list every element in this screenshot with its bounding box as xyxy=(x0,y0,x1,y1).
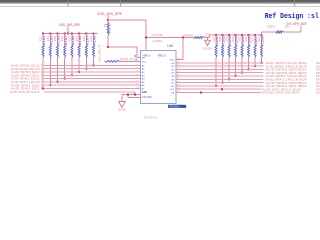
wire resistor R162 bottom lead to bus xyxy=(49,58,51,86)
wire stub below VDD_AVS_SPK xyxy=(107,15,109,20)
wire into resistor R171 xyxy=(104,60,106,62)
svg-text:CLK: CLK xyxy=(170,89,175,91)
junction R188 to bus line xyxy=(261,62,263,64)
junction R168 to bus line xyxy=(93,64,95,66)
wire bus line right 3 xyxy=(176,68,264,70)
wire resistor R185 top lead xyxy=(241,35,243,46)
wire left bank power rail xyxy=(43,33,98,35)
junction CAP_PAD to GND wire xyxy=(127,94,129,96)
svg-text:R168: R168 xyxy=(93,35,97,46)
wire bus line right 10 xyxy=(176,92,262,94)
resistor R184 xyxy=(235,46,237,58)
wire FB107 to label riser xyxy=(284,31,302,33)
wire stub to power arrow 3V3_SPK xyxy=(207,38,209,41)
wire resistor R183 bottom lead to bus xyxy=(228,58,230,80)
svg-text:FB106: FB106 xyxy=(184,33,194,37)
wire jog horizontal to IC pin 1 xyxy=(108,46,137,48)
junction R181 to bus line xyxy=(215,85,217,87)
wire resistor R164 bottom lead to bus xyxy=(64,58,66,79)
wire bus line left 1 xyxy=(44,64,140,66)
junction right rail col 7 xyxy=(254,34,256,36)
svg-text:TC106: TC106 xyxy=(152,33,163,37)
junction right rail col 1 xyxy=(215,34,217,36)
resistor R185 xyxy=(241,46,243,58)
svg-text:VREF_B: VREF_B xyxy=(158,55,166,58)
resistor R171 xyxy=(106,60,120,62)
wire bus line left 7 xyxy=(44,84,140,86)
svg-text:330: 330 xyxy=(212,36,216,42)
svg-text:CAP_PAD: CAP_PAD xyxy=(142,96,152,99)
wire resistor R184 bottom lead to bus xyxy=(235,58,237,77)
wire top horizontal to VREF riser xyxy=(108,19,146,21)
junction R164 to bus line xyxy=(64,78,66,80)
junction R170 bottom node xyxy=(107,46,109,48)
wire resistor R165 bottom lead to bus xyxy=(71,58,73,76)
svg-text:DGND: DGND xyxy=(118,108,126,112)
junction R182 to bus line xyxy=(222,82,224,84)
resistor R168 xyxy=(93,46,95,58)
wire bus line right 1 xyxy=(176,62,264,64)
svg-text:SDZ: SDZ xyxy=(142,61,147,63)
wire resistor R162 top lead xyxy=(49,34,51,46)
junction left rail col 4 xyxy=(64,33,66,35)
resistor R170 top lead xyxy=(107,20,109,23)
svg-text:330: 330 xyxy=(82,35,86,41)
wire bus line right 6 xyxy=(176,78,264,80)
wire bus line left 2 xyxy=(44,68,140,70)
wire VREF_B riser down xyxy=(182,38,184,60)
svg-text:330: 330 xyxy=(89,35,93,41)
svg-text:R163: R163 xyxy=(57,35,61,46)
junction bus right 10 xyxy=(200,92,202,94)
wire MCLK line drop to GND net xyxy=(134,92,136,95)
wire resistor R186 bottom lead to bus xyxy=(248,58,250,70)
resistor R163 xyxy=(57,46,59,58)
wire resistor R168 top lead xyxy=(93,34,95,46)
wire stub from VDD_AVS_SPK label to left rail xyxy=(67,27,69,34)
wire bus line right 8 xyxy=(176,85,264,87)
resistor R162 xyxy=(49,46,51,58)
toolbar separator 2 xyxy=(119,1,122,6)
svg-text:DGND SPK I2S BUF: DGND SPK I2S BUF xyxy=(262,91,300,95)
wire resistor R167 bottom lead to bus xyxy=(85,58,87,69)
ferrite bead FB107 xyxy=(276,31,284,33)
wire resistor R182 bottom lead to bus xyxy=(222,58,224,83)
wire VREF rail horizontal xyxy=(146,37,194,39)
wire resistor R165 top lead xyxy=(71,34,73,46)
wire bus line right 4 xyxy=(176,72,264,74)
wire bus line left 9 (MCLK) xyxy=(44,91,135,93)
wire jog vertical to IC pin 1 xyxy=(136,47,138,58)
resistor R187 xyxy=(254,46,256,58)
resistor R166 xyxy=(78,46,80,58)
svg-text:3V3SPK: 3V3SPK xyxy=(203,47,212,50)
wire R171 to IC pin 2 xyxy=(120,60,141,62)
junction left rail col 5 xyxy=(71,33,73,35)
svg-text:1.00M: 1.00M xyxy=(152,39,162,43)
wire resistor R167 top lead xyxy=(85,34,87,46)
svg-text:R165: R165 xyxy=(71,35,75,46)
junction R167 to bus line xyxy=(85,68,87,70)
junction left rail col 2 xyxy=(49,33,51,35)
svg-text:SPK AMP U16: SPK AMP U16 xyxy=(144,116,158,120)
svg-text:SPK: SPK xyxy=(316,91,320,95)
junction right rail col 8 xyxy=(261,34,263,36)
op IC U16 body xyxy=(140,51,176,104)
junction right rail col 3 xyxy=(228,34,230,36)
svg-text:330: 330 xyxy=(67,35,71,41)
wire resistor R187 bottom lead to bus xyxy=(254,58,256,67)
junction on left rail at label stub xyxy=(67,33,69,35)
svg-text:U16: U16 xyxy=(167,44,173,48)
wire resistor R161 top lead xyxy=(42,34,44,46)
resistor R165 xyxy=(71,46,73,58)
wire GND pin xyxy=(122,94,140,96)
wire resistor R187 top lead xyxy=(254,35,256,46)
wire FB106 output xyxy=(205,37,210,39)
junction R186 to bus line xyxy=(248,68,250,70)
toolbar bar top xyxy=(0,0,320,2)
svg-text:330: 330 xyxy=(231,36,235,42)
svg-text:330: 330 xyxy=(39,35,43,41)
svg-text:330: 330 xyxy=(75,35,79,41)
junction VREF_A xyxy=(145,37,147,39)
junction MCLK drop xyxy=(134,94,136,96)
selected part number highlight xyxy=(168,105,186,108)
resistor R188 xyxy=(261,46,263,58)
svg-text:3V3_SPK_BUF: 3V3_SPK_BUF xyxy=(286,22,307,26)
svg-text:330: 330 xyxy=(218,36,222,42)
wire resistor R163 top lead xyxy=(57,34,59,46)
resistor R181 xyxy=(215,46,217,58)
wire top right horizontal xyxy=(262,31,277,33)
wire VREF_A riser xyxy=(145,20,147,51)
svg-text:R167: R167 xyxy=(85,35,89,46)
wire VREF_B into IC right xyxy=(176,59,183,61)
svg-text:R164: R164 xyxy=(64,35,68,46)
svg-text:R161: R161 xyxy=(42,35,46,46)
resistor R183 xyxy=(228,46,230,58)
junction R184 to bus line xyxy=(235,75,237,77)
junction R165 to bus line xyxy=(71,74,73,76)
wire riser from 3V3_SPK_BUF branch xyxy=(261,32,263,35)
junction VREF_B tap xyxy=(182,37,184,39)
ground symbol DGND xyxy=(119,102,126,108)
wire resistor R183 top lead xyxy=(228,35,230,46)
svg-text:R188: R188 xyxy=(261,35,265,46)
junction R185 to bus line xyxy=(241,72,243,74)
wire down to DGND symbol xyxy=(121,95,123,102)
wire resistor R184 top lead xyxy=(235,35,237,46)
svg-text:TPA6404: TPA6404 xyxy=(169,105,179,108)
wire resistor R161 bottom lead to bus xyxy=(42,58,44,89)
wire resistor R166 bottom lead to bus xyxy=(78,58,80,73)
resistor R182 xyxy=(222,46,224,58)
wire resistor R188 bottom lead to bus xyxy=(261,58,263,63)
junction R187 to bus line xyxy=(254,65,256,67)
resistor R161 xyxy=(42,46,44,58)
wire bus line right 5 xyxy=(176,75,264,77)
svg-text:330: 330 xyxy=(257,36,261,42)
wire resistor R164 top lead xyxy=(64,34,66,46)
svg-text:R166: R166 xyxy=(78,35,82,46)
svg-text:330: 330 xyxy=(46,35,50,41)
junction right rail col 5 xyxy=(241,34,243,36)
wire riser to right rail xyxy=(209,35,211,38)
wire resistor R186 top lead xyxy=(248,35,250,46)
resistor R186 xyxy=(248,46,250,58)
junction left rail col 8 xyxy=(93,33,95,35)
junction R166 to bus line xyxy=(78,71,80,73)
wire resistor R182 top lead xyxy=(222,35,224,46)
junction bus right 9 xyxy=(221,88,223,90)
wire resistor R163 bottom lead to bus xyxy=(57,58,59,82)
power symbol 3V3_SPK (arrow) xyxy=(205,40,211,45)
wire riser to 3V3_SPK_BUF label xyxy=(300,26,302,32)
junction left rail col 1 xyxy=(42,33,44,35)
svg-text:330: 330 xyxy=(53,35,57,41)
wire resistor R166 top lead xyxy=(78,34,80,46)
wire bus line left 8 xyxy=(44,88,140,90)
wire CAP_PAD pin xyxy=(128,96,140,98)
wire bus line right 7 xyxy=(176,82,264,84)
resistor R167 xyxy=(85,46,87,58)
junction right rail col 4 xyxy=(235,34,237,36)
junction R183 to bus line xyxy=(228,78,230,80)
svg-text:330: 330 xyxy=(60,35,64,41)
toolbar separator 3 xyxy=(293,1,296,6)
junction at VDD_AVS_SPK node xyxy=(107,19,109,21)
svg-text:R171 33: R171 33 xyxy=(120,58,134,61)
svg-text:330: 330 xyxy=(238,36,242,42)
wire bus line right 9 xyxy=(176,88,262,90)
svg-text:R162: R162 xyxy=(49,35,53,46)
wire resistor R188 top lead xyxy=(261,35,263,46)
junction R163 to bus line xyxy=(57,81,59,83)
junction R162 to bus line xyxy=(49,84,51,86)
junction left rail col 3 xyxy=(57,33,59,35)
svg-text:GND: GND xyxy=(142,91,148,94)
junction left rail col 6 xyxy=(78,33,80,35)
svg-text:FB107: FB107 xyxy=(268,24,276,28)
svg-text:VDD_AVS_SPK: VDD_AVS_SPK xyxy=(97,12,123,16)
wire bus line left 5 xyxy=(44,78,140,80)
wire resistor R181 top lead xyxy=(215,35,217,46)
svg-text:330: 330 xyxy=(251,36,255,42)
wire bus line right 2 xyxy=(176,65,264,67)
wire right bank power rail xyxy=(210,34,262,36)
svg-text:330: 330 xyxy=(244,36,248,42)
svg-text:VDD_AVS_SPK: VDD_AVS_SPK xyxy=(59,23,81,27)
wire bus line left 4 xyxy=(44,74,140,76)
wire resistor R181 bottom lead to bus xyxy=(215,58,217,86)
wire bus line left 6 xyxy=(44,81,140,83)
svg-text:AUD SPK MCLK R: AUD SPK MCLK R xyxy=(10,90,41,94)
wire R170 bottom lead xyxy=(107,36,109,48)
wire bus line left 3 xyxy=(44,71,140,73)
svg-text:3V3_SPK_R: 3V3_SPK_R xyxy=(98,45,102,62)
junction right rail col 2 xyxy=(222,34,224,36)
svg-text:VDD: VDD xyxy=(170,60,175,62)
junction left rail col 7 xyxy=(85,33,87,35)
junction R161 to bus line xyxy=(42,88,44,90)
svg-text:330: 330 xyxy=(225,36,229,42)
toolbar separator 1 xyxy=(67,1,70,6)
resistor R164 xyxy=(64,46,66,58)
svg-text:EN: EN xyxy=(142,58,145,60)
wire resistor R168 bottom lead to bus xyxy=(93,58,95,66)
resistor R170 xyxy=(107,23,109,36)
svg-text:Ref Design :sl: Ref Design :sl xyxy=(265,13,320,21)
junction right rail col 6 xyxy=(248,34,250,36)
wire resistor R185 bottom lead to bus xyxy=(241,58,243,73)
wire CAP_PAD riser xyxy=(127,95,129,98)
svg-text:OE: OE xyxy=(171,93,175,95)
wire jog into IC pin 1 xyxy=(137,57,140,59)
ferrite bead FB106 xyxy=(194,37,205,39)
